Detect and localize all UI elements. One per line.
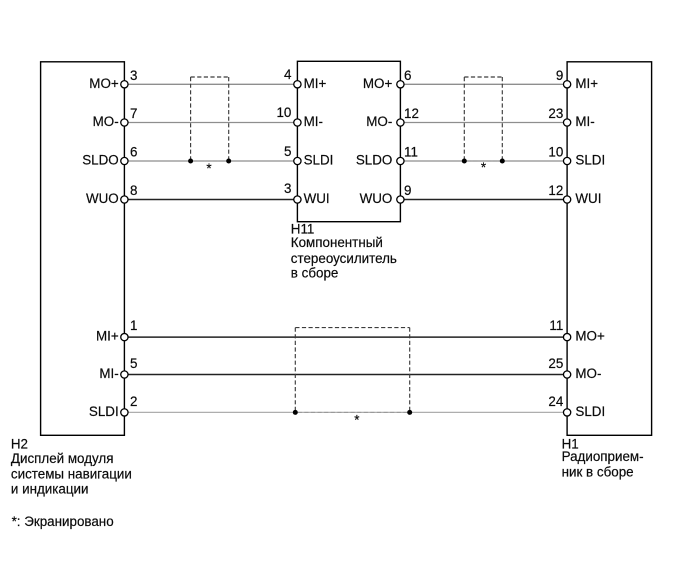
- pin H2.5: [121, 371, 128, 378]
- pin H11.10: [294, 119, 301, 126]
- svg-text:SLDI: SLDI: [575, 404, 605, 419]
- shield S1 drain junction right: [226, 159, 231, 164]
- pin H11.11: [397, 157, 404, 164]
- shield S1 drain junction left: [188, 159, 193, 164]
- shield S2 over MO+/MO- (H11 to H1): [464, 77, 502, 161]
- shield S3 drain junction right: [407, 410, 412, 415]
- svg-text:25: 25: [548, 356, 563, 371]
- svg-text:7: 7: [130, 106, 137, 121]
- svg-text:2: 2: [130, 394, 137, 409]
- svg-text:MI-: MI-: [99, 366, 118, 381]
- pin H11.6: [397, 81, 404, 88]
- wire MI+ H2.1 to H1.11: [124, 336, 567, 338]
- shield S3 drain junction left: [293, 410, 298, 415]
- wire MO- H2.7 to H11.10: [124, 122, 297, 124]
- svg-text:ник в сборе: ник в сборе: [562, 464, 634, 479]
- wire SLDO H11.11 to H1.10: [400, 160, 567, 162]
- svg-text:10: 10: [548, 145, 563, 160]
- svg-text:SLDO: SLDO: [82, 153, 118, 168]
- svg-text:4: 4: [284, 67, 292, 82]
- pin H1.9: [563, 81, 570, 88]
- svg-text:11: 11: [549, 318, 563, 333]
- svg-text:MO+: MO+: [575, 329, 605, 344]
- svg-text:6: 6: [130, 145, 137, 160]
- shield S1 over MO+/MO- (H2 to H11): [191, 77, 229, 161]
- svg-text:MI-: MI-: [575, 114, 594, 129]
- svg-text:*: *: [206, 161, 211, 176]
- svg-text:1: 1: [130, 318, 137, 333]
- pin H1.25: [563, 371, 570, 378]
- svg-text:WUI: WUI: [304, 191, 330, 206]
- wire WUO H11.9 to H1.12: [400, 199, 567, 201]
- pin H1.12: [563, 196, 570, 203]
- pin H11.5: [294, 157, 301, 164]
- svg-text:23: 23: [548, 106, 563, 121]
- svg-text:11: 11: [404, 145, 418, 160]
- svg-text:Дисплей модуля: Дисплей модуля: [11, 451, 114, 466]
- svg-text:*: *: [354, 412, 359, 427]
- svg-text:*: *: [481, 160, 486, 175]
- svg-text:Компонентный: Компонентный: [291, 235, 383, 250]
- pin H2.3: [121, 81, 128, 88]
- pin H1.10: [563, 157, 570, 164]
- svg-text:3: 3: [130, 68, 137, 83]
- pin H1.24: [563, 409, 570, 416]
- svg-text:10: 10: [276, 105, 291, 120]
- wire SLDO H2.6 to H11.5: [124, 160, 297, 162]
- svg-text:и индикации: и индикации: [11, 481, 89, 496]
- svg-text:WUO: WUO: [86, 191, 119, 206]
- wire MO+ H11.6 to H1.9: [400, 83, 567, 85]
- svg-text:3: 3: [284, 181, 291, 196]
- svg-text:Радиоприем-: Радиоприем-: [562, 449, 644, 464]
- svg-text:SLDO: SLDO: [356, 153, 392, 168]
- wire SLDI H2.2 to H1.24: [124, 411, 567, 413]
- shield S3 over MI+/MI- (H2 to H1): [295, 328, 409, 413]
- pin H2.6: [121, 157, 128, 164]
- svg-text:SLDI: SLDI: [575, 153, 605, 168]
- svg-text:*: Экранировано: *: Экранировано: [12, 514, 114, 529]
- svg-text:12: 12: [404, 106, 419, 121]
- shield S2 drain junction left: [462, 159, 467, 164]
- svg-text:MO+: MO+: [363, 76, 393, 91]
- svg-text:24: 24: [548, 394, 563, 409]
- svg-text:9: 9: [404, 183, 411, 198]
- pin H1.23: [563, 119, 570, 126]
- wire MO- H11.12 to H1.23: [400, 122, 567, 124]
- svg-text:MI+: MI+: [304, 76, 327, 91]
- svg-text:MO+: MO+: [89, 76, 119, 91]
- svg-text:6: 6: [404, 68, 411, 83]
- svg-text:9: 9: [556, 68, 563, 83]
- pin H11.3: [294, 196, 301, 203]
- wire MI- H2.5 to H1.25: [124, 374, 567, 376]
- svg-text:WUO: WUO: [360, 191, 393, 206]
- wire MO+ H2.3 to H11.4: [124, 83, 297, 85]
- shield S2 drain junction right: [500, 159, 505, 164]
- svg-text:MO-: MO-: [93, 114, 119, 129]
- svg-text:5: 5: [130, 356, 137, 371]
- svg-text:SLDI: SLDI: [89, 404, 119, 419]
- svg-text:стереоусилитель: стереоусилитель: [291, 251, 397, 266]
- svg-text:MO-: MO-: [575, 366, 601, 381]
- svg-text:MI+: MI+: [575, 76, 598, 91]
- svg-text:MI-: MI-: [304, 114, 323, 129]
- svg-text:SLDI: SLDI: [304, 153, 334, 168]
- svg-text:8: 8: [130, 183, 137, 198]
- svg-text:системы навигации: системы навигации: [11, 466, 132, 481]
- svg-text:в сборе: в сборе: [291, 265, 339, 280]
- connector H11 (stereo amplifier): [297, 61, 400, 221]
- pin H11.4: [294, 81, 301, 88]
- svg-text:MO-: MO-: [366, 114, 392, 129]
- pin H11.9: [397, 196, 404, 203]
- svg-text:WUI: WUI: [575, 191, 601, 206]
- pin H2.2: [121, 409, 128, 416]
- pin H2.7: [121, 119, 128, 126]
- pin H2.1: [121, 333, 128, 340]
- svg-text:MI+: MI+: [96, 329, 119, 344]
- pin H2.8: [121, 196, 128, 203]
- wire WUO H2.8 to H11.3: [124, 199, 297, 201]
- connector H2 (display module): [41, 62, 125, 436]
- connector H1 (radio receiver): [567, 62, 652, 436]
- pin H1.11: [563, 333, 570, 340]
- svg-text:H2: H2: [11, 436, 28, 451]
- svg-text:5: 5: [284, 144, 291, 159]
- svg-text:12: 12: [548, 183, 563, 198]
- pin H11.12: [397, 119, 404, 126]
